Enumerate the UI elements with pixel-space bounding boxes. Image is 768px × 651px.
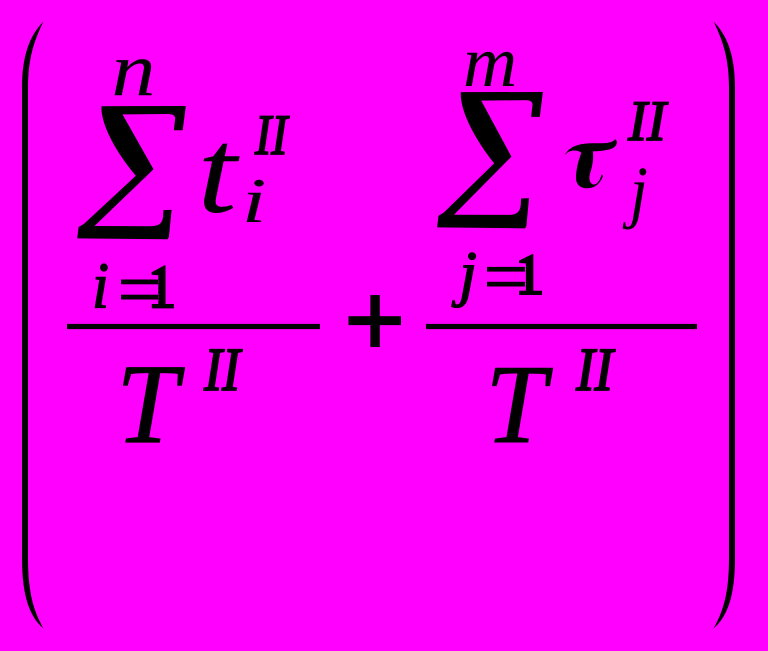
svg-text:II: II [627,90,669,153]
summation sigma 1 [77,106,186,239]
left parenthesis [22,22,44,629]
superscript II of T fraction 1 [203,334,242,403]
lower limit i of sum 1 [92,249,109,322]
lower limit digit 1 of sum 2 [519,254,542,295]
subscript j of tau [622,153,648,230]
equals sign of i=1 [121,280,158,285]
svg-text:T: T [116,342,185,468]
denominator T of fraction 1 [116,342,185,468]
svg-text:II: II [254,103,289,167]
lower limit j of sum 2 [452,239,477,308]
svg-text:n: n [112,26,156,111]
variable tau [565,139,617,188]
svg-text:m: m [463,21,517,102]
svg-text:i: i [92,249,109,322]
superscript II of T fraction 2 [575,335,615,403]
variable t [197,104,240,239]
svg-text:t: t [197,104,240,239]
lower limit digit 1 of sum 1 [152,265,174,308]
upper limit m of sum 2 [463,21,517,102]
summation sigma 2 [437,92,543,228]
subscript i of t [242,166,267,236]
right parenthesis [714,22,736,629]
svg-text:T: T [486,342,553,466]
superscript II of t [254,103,289,167]
denominator T of fraction 2 [486,342,553,466]
svg-text:i: i [242,166,267,236]
fraction bar 1 [67,324,320,329]
svg-text:II: II [575,335,615,403]
svg-text:II: II [203,334,242,403]
fraction bar 2 [426,324,697,329]
plus sign [349,316,402,325]
upper limit n of sum 1 [112,26,156,111]
superscript II of tau [627,90,669,153]
equals sign of j=1 [487,267,525,272]
